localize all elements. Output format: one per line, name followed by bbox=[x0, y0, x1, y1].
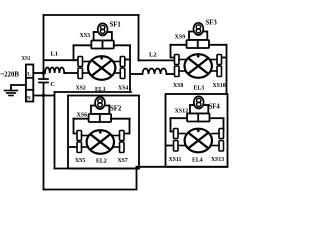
wire stub XS4 top bbox=[125, 59, 130, 61]
svg-text:XS4: XS4 bbox=[118, 86, 128, 92]
wire XS3 right bbox=[114, 44, 130, 46]
starter SF4 pedestal bbox=[190, 105, 208, 114]
wire XS3 left bbox=[74, 44, 92, 46]
svg-text:~220В: ~220В bbox=[1, 70, 20, 79]
lamp EL3 top pin dot bbox=[197, 55, 200, 58]
ground bbox=[5, 91, 18, 96]
connector XS12 block bbox=[187, 114, 210, 122]
wire top rail bbox=[44, 14, 139, 16]
wire XS12 right drop bbox=[223, 118, 225, 131]
box EL4 fixture bbox=[166, 94, 228, 167]
connector XS4 bbox=[120, 57, 125, 79]
starter SF2 bbox=[95, 97, 105, 109]
lamp EL1 cross bbox=[92, 61, 111, 76]
svg-text:L: L bbox=[27, 71, 31, 77]
wire vertical main left (x=43.5) lower bbox=[43, 83, 45, 190]
connector XS5 bbox=[77, 131, 82, 153]
wire XS9 right bbox=[209, 44, 227, 46]
wire XS6 left drop bbox=[74, 119, 78, 134]
wire N from XS1 to left rail bbox=[33, 95, 54, 97]
wire L2 to XS8 bbox=[167, 73, 175, 75]
wire XS9 right drop bbox=[226, 45, 228, 94]
wire feed into XS5 bbox=[68, 146, 77, 148]
wire stubs lamp EL1 right bbox=[114, 62, 120, 74]
svg-text:XS6: XS6 bbox=[77, 113, 88, 119]
wire XS9 left bbox=[171, 44, 187, 46]
starter SF4 glow glyph bbox=[197, 98, 201, 106]
svg-text:SF4: SF4 bbox=[209, 104, 221, 111]
svg-text:XS8: XS8 bbox=[173, 83, 183, 89]
wire XS6 right bbox=[111, 118, 129, 120]
wire XS12 left drop bbox=[171, 118, 174, 131]
wire stubs lamp EL2 right bbox=[113, 136, 120, 148]
inductor L1 bbox=[45, 68, 64, 74]
svg-text:XS12: XS12 bbox=[175, 109, 189, 115]
wire bottom rail y=189.5 bbox=[44, 167, 137, 190]
svg-text:XS10: XS10 bbox=[213, 83, 226, 89]
wire right vertical x=138.5 bbox=[138, 15, 140, 60]
wire vertical main left (x=43.5) upper bbox=[43, 15, 45, 79]
svg-text:L1: L1 bbox=[51, 51, 59, 58]
connector XS2 bbox=[78, 57, 83, 79]
connector XS13 bbox=[219, 129, 224, 152]
svg-text:L2: L2 bbox=[149, 52, 157, 59]
box EL2 fixture bbox=[68, 96, 139, 169]
wire XS12 left bbox=[171, 117, 188, 119]
wire stubs lamp EL3 left bbox=[179, 60, 186, 72]
wire L from XS1 to node bbox=[33, 72, 43, 74]
wire PE from XS1 middle cell bbox=[11, 85, 26, 91]
svg-text:SF2: SF2 bbox=[110, 106, 122, 113]
connector XS3 block bbox=[91, 41, 114, 49]
wire stubs lamp EL4 right bbox=[212, 134, 219, 146]
lamp EL2 bbox=[87, 130, 114, 154]
lamp EL4 cross bbox=[189, 133, 208, 148]
lamp EL2 top pin dot bbox=[99, 131, 102, 134]
wire L1 to XS2 bbox=[64, 72, 78, 74]
wire stubs lamp EL3 right bbox=[210, 60, 217, 72]
lamp EL1 top pin dot bbox=[100, 57, 103, 60]
connector XS10 bbox=[217, 55, 222, 77]
svg-text:XS9: XS9 bbox=[175, 35, 186, 41]
wire XS3 left drop bbox=[73, 45, 75, 60]
svg-text:XS1: XS1 bbox=[22, 56, 31, 62]
starter SF3 pedestal bbox=[189, 32, 207, 41]
starter SF1 bbox=[98, 23, 108, 35]
starter SF3 glow glyph bbox=[196, 25, 200, 33]
svg-text:XS7: XS7 bbox=[118, 158, 128, 164]
svg-text:XS5: XS5 bbox=[75, 158, 85, 164]
wire stubs lamp EL1 left bbox=[83, 62, 90, 74]
connector XS8 bbox=[175, 55, 180, 77]
node L junction dot bbox=[42, 71, 45, 74]
wire XS6 left bbox=[74, 118, 89, 120]
wire vertical x=54.5 bbox=[54, 92, 56, 169]
svg-text:N: N bbox=[27, 95, 31, 101]
svg-text:SF3: SF3 bbox=[206, 20, 218, 27]
wire stubs lamp EL4 left bbox=[178, 134, 185, 146]
svg-text:EL4: EL4 bbox=[192, 158, 203, 164]
starter SF3 bbox=[194, 23, 204, 35]
wire XS12 right bbox=[210, 117, 224, 119]
lamp EL4 bbox=[185, 129, 212, 153]
wire XS4 drop to L2 bbox=[130, 73, 143, 75]
connector XS11 bbox=[174, 129, 179, 152]
starter SF1 pedestal bbox=[94, 32, 112, 41]
inductor L2 core line bbox=[139, 59, 175, 61]
lamp EL4 top pin dot bbox=[197, 130, 200, 133]
connector XS1 block bbox=[26, 65, 33, 102]
wire rail y=168 bbox=[55, 168, 140, 170]
connector XS9 block bbox=[187, 40, 210, 48]
starter SF1 glow glyph bbox=[100, 25, 104, 33]
svg-text:XS13: XS13 bbox=[211, 157, 224, 163]
wire stub XS10 top bbox=[222, 57, 227, 59]
svg-text:XS3: XS3 bbox=[80, 33, 91, 39]
svg-text:EL2: EL2 bbox=[96, 159, 107, 165]
inductor L1 core line bbox=[44, 59, 79, 61]
starter SF4 bbox=[194, 96, 204, 108]
svg-text:C: C bbox=[51, 82, 55, 88]
svg-text:EL1: EL1 bbox=[95, 87, 106, 93]
wire XS3 right drop to rail bbox=[129, 45, 131, 92]
connector XS6 block bbox=[89, 114, 112, 122]
starter SF2 pedestal bbox=[91, 106, 109, 115]
wire XS9 left drop bbox=[171, 45, 175, 58]
wire XS6 right drop bbox=[124, 119, 130, 134]
wire stubs lamp EL2 left bbox=[82, 136, 89, 148]
capacitor C bbox=[39, 79, 48, 83]
connector XS7 bbox=[120, 131, 125, 153]
inductor L2 bbox=[143, 69, 167, 75]
svg-text:XS11: XS11 bbox=[169, 157, 182, 163]
wire feed into XS11 bbox=[166, 145, 174, 147]
starter SF2 glow glyph bbox=[98, 99, 102, 107]
lamp EL3 bbox=[185, 54, 212, 78]
svg-text:EL3: EL3 bbox=[194, 86, 205, 92]
lamp EL3 cross bbox=[189, 59, 208, 74]
node N junction dot bbox=[42, 94, 45, 97]
wire rail y=92 bbox=[55, 91, 131, 93]
lamp EL1 bbox=[88, 56, 115, 80]
lamp EL2 cross bbox=[91, 135, 110, 150]
svg-text:SF1: SF1 bbox=[110, 22, 122, 29]
svg-text:XS2: XS2 bbox=[76, 86, 86, 92]
